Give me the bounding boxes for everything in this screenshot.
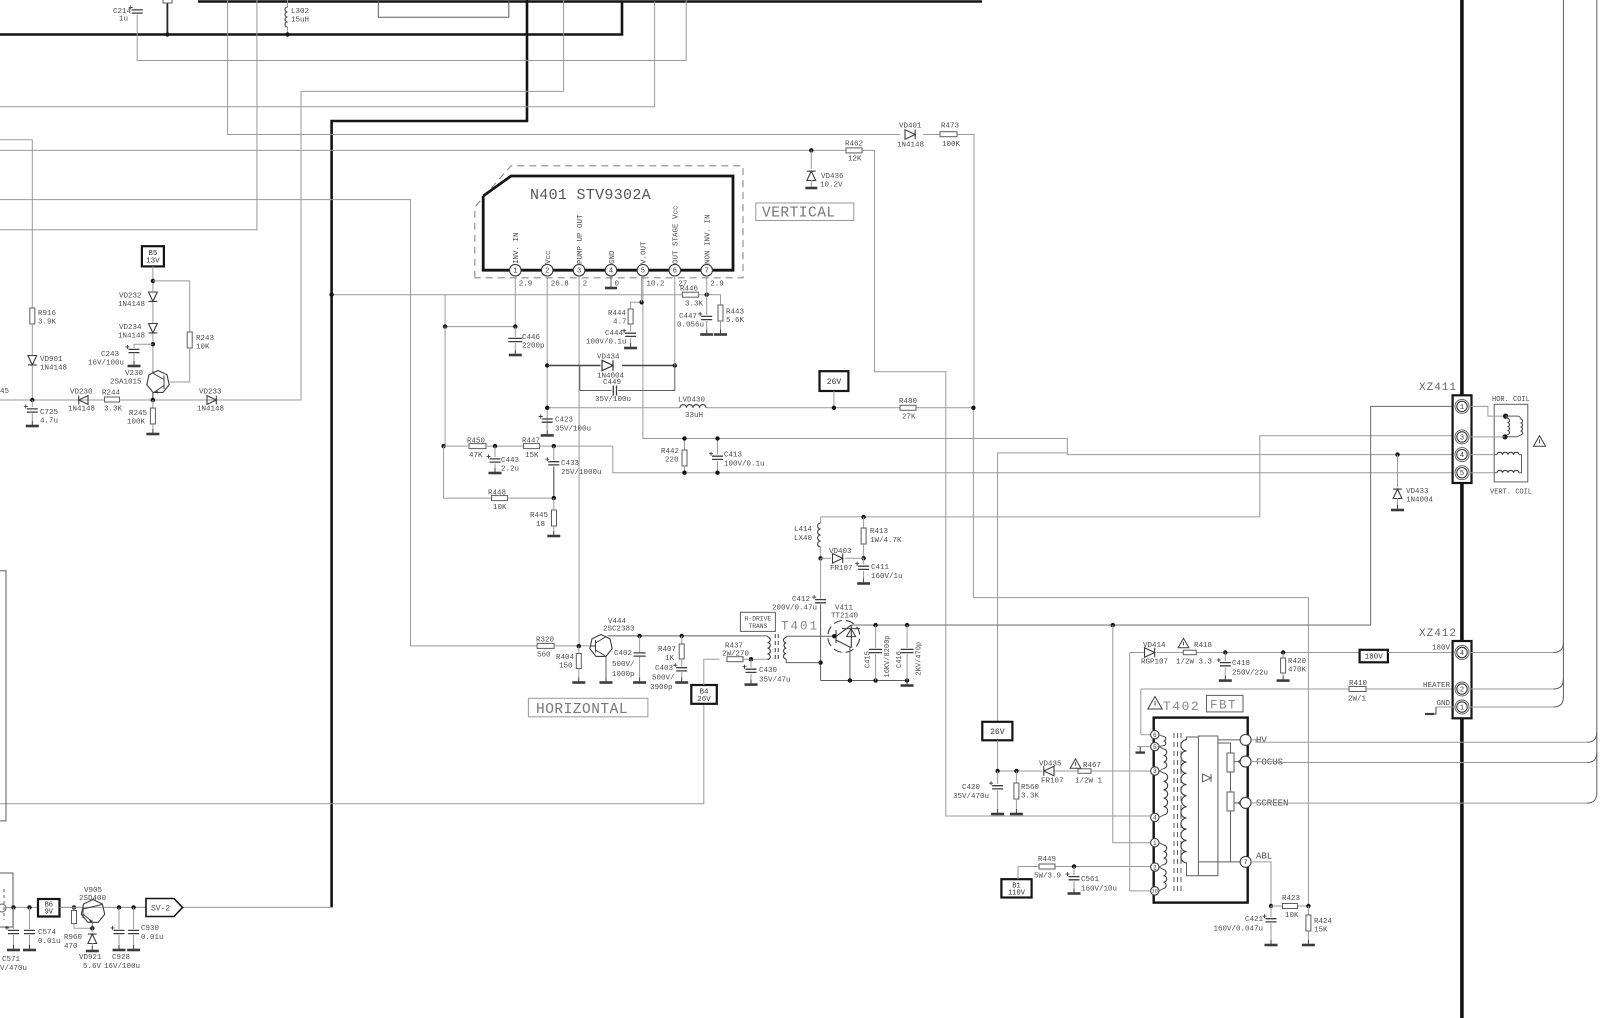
svg-text:R418: R418 (1194, 642, 1212, 650)
svg-text:C412: C412 (792, 596, 810, 604)
transformer T401 primary (768, 637, 771, 660)
wire VD435 row y=771 to FBT pin3 (998, 770, 1042, 772)
svg-text:180V: 180V (1432, 645, 1451, 653)
node junction C421 (1269, 904, 1273, 908)
node junction L414 bottom (818, 556, 822, 560)
wire branch to R243 (153, 281, 190, 332)
svg-text:10.2V: 10.2V (820, 182, 843, 190)
svg-text:26V: 26V (990, 728, 1005, 737)
resistor R462 12K (846, 148, 862, 153)
resistor R447 15K (524, 444, 540, 449)
wire x=445.1 down to R450 row (444, 327, 446, 447)
resistor R467 1/2W 1 with warning (1070, 759, 1081, 768)
wire L414 top net y=516.9 to XZ411 pin3 via x=1259.8 y=435.8 (821, 436, 1453, 517)
svg-text:ABL: ABL (1256, 852, 1272, 862)
FBT SCREEN pin (1240, 797, 1251, 808)
resistor R450 47K (469, 444, 486, 449)
diode VD435 FR107 (1044, 766, 1054, 776)
svg-text:R449: R449 (1038, 856, 1056, 864)
wire right bus x=1563.4 cable (1562, 0, 1564, 698)
FBT pin 6 (1141, 734, 1151, 736)
pin 1 INV. IN (510, 264, 522, 276)
node junction VD434 right pin6 (673, 363, 677, 367)
svg-text:150: 150 (559, 663, 573, 671)
wire V411 bottom rail y=680.5 (821, 680, 908, 682)
resistor R437 2W/270 (727, 657, 743, 662)
capacitor C930 0.01u (133, 907, 135, 929)
svg-text:1000p: 1000p (612, 671, 635, 679)
svg-text:XZ411: XZ411 (1419, 382, 1457, 394)
node junction C416 bottom gnd (905, 678, 909, 682)
op-amp U1 N401 STV9302A thick body (483, 176, 733, 270)
svg-text:2SA1015: 2SA1015 (110, 379, 142, 387)
svg-text:4.7u: 4.7u (40, 418, 58, 426)
wire pin1 down (514, 276, 516, 327)
node junction C416 top (905, 623, 909, 627)
svg-text:RGP107: RGP107 (1141, 659, 1168, 667)
node junction C418 (1223, 650, 1227, 654)
transistor V230 2SA1015 (147, 371, 169, 393)
svg-text:2: 2 (1153, 864, 1157, 871)
svg-text:C421: C421 (1245, 916, 1264, 924)
resistor R444 4.7 (631, 302, 642, 309)
svg-text:R445: R445 (530, 512, 549, 520)
svg-text:3.9K: 3.9K (38, 319, 57, 327)
pin 7 NON INV. IN (701, 264, 713, 276)
pin 4 GND (605, 264, 617, 276)
svg-text:470: 470 (64, 943, 78, 951)
node junction on thick bus (329, 293, 333, 297)
resistor R473 100K (940, 132, 957, 137)
capacitor C571 (13, 907, 15, 929)
svg-text:12K: 12K (848, 156, 862, 164)
FBT secondary winding (1181, 740, 1187, 863)
svg-text:HOR. COIL: HOR. COIL (1492, 396, 1530, 404)
capacitor C403 500V/3900p (681, 659, 683, 667)
svg-text:2SC2383: 2SC2383 (603, 626, 635, 634)
svg-text:C418: C418 (1232, 660, 1250, 668)
svg-text:HV: HV (1256, 736, 1267, 746)
resistor R480 27K (900, 405, 916, 410)
capacitor C416 2KV/470p (906, 625, 908, 648)
svg-text:C443: C443 (501, 457, 520, 465)
wire FBT pin6 riser (1140, 689, 1142, 735)
capacitor C423 35V/100u (542, 419, 553, 422)
svg-text:18: 18 (536, 521, 545, 529)
pin 3 PUMP UP OUT (573, 264, 585, 276)
wire L414 top row y=516.9 start (820, 517, 822, 523)
svg-text:VD234: VD234 (119, 324, 142, 332)
wire B+ x=973.4 from R473 down through R480 node to y=597.6 to x=1308.4 down to R423 node (973, 408, 1308, 906)
svg-text:2KV/470p: 2KV/470p (916, 642, 924, 676)
svg-text:33uH: 33uH (685, 412, 703, 420)
node junction C430 (749, 657, 753, 661)
svg-text:LX40: LX40 (794, 535, 813, 543)
svg-text:R410: R410 (1349, 680, 1368, 688)
svg-text:OUT STAGE Vcc: OUT STAGE Vcc (673, 205, 681, 264)
node junction emitter to R245 (151, 398, 155, 402)
component stub C220 top edge (163, 0, 172, 3)
svg-text:4: 4 (609, 268, 613, 276)
node junction R424 top (1306, 904, 1310, 908)
FBT focus arrow (1234, 760, 1241, 764)
svg-text:250V/22u: 250V/22u (1232, 670, 1268, 678)
capacitor C725 4.7u (31, 400, 33, 407)
svg-text:1N4148: 1N4148 (197, 406, 224, 414)
svg-text:100V/0.1u: 100V/0.1u (724, 461, 765, 469)
resistor R448 10K (492, 496, 508, 501)
wire R448 row y=498.1 (444, 446, 491, 498)
svg-text:V230: V230 (125, 370, 144, 378)
resistor R245 100K (152, 400, 154, 408)
svg-text:1N4148: 1N4148 (40, 365, 67, 373)
diode VD234 1N4148 (149, 324, 158, 333)
svg-text:4: 4 (1460, 650, 1464, 658)
wire B4 net y=803.8 from x=0 to x=703.8 up to B4 box (0, 704, 704, 804)
capacitor C411 160V/1u (863, 558, 865, 564)
wire x=1112.8 down to FBT pin1 (1113, 625, 1151, 843)
svg-text:1: 1 (1460, 404, 1464, 412)
svg-text:R404: R404 (556, 654, 575, 662)
node junction B5 (151, 279, 155, 283)
diode VD433 1N4004 (1397, 455, 1399, 487)
resistor R418 1/2W 3.3 with warning (1178, 638, 1189, 647)
connector XZ411 pin 3 (1455, 430, 1469, 444)
svg-text:NON INV. IN: NON INV. IN (705, 214, 713, 264)
wire VD401 net y=134.5 from x=227.6 (228, 0, 900, 135)
wire pin7 down to C447 (706, 276, 708, 315)
svg-text:Vcc: Vcc (545, 250, 553, 264)
svg-text:C243: C243 (101, 351, 120, 359)
wire right bus x=1596.8 cable (1596, 0, 1598, 794)
capacitor C928 16V/100u (118, 907, 120, 929)
net flag SV-2 (146, 899, 183, 917)
svg-text:6: 6 (673, 268, 677, 276)
svg-text:10K: 10K (1285, 912, 1299, 920)
node junction pin7 (705, 293, 709, 297)
FBT primary winding lower (1159, 843, 1164, 845)
FBT pin 10 (1151, 887, 1159, 895)
svg-text:R448: R448 (488, 490, 506, 498)
svg-text:1u: 1u (119, 16, 128, 24)
node junction C420 (995, 769, 999, 773)
svg-text:4.7: 4.7 (613, 319, 627, 327)
svg-text:15uH: 15uH (291, 17, 309, 25)
svg-text:1/2W 1: 1/2W 1 (1075, 778, 1103, 786)
inductor vert coil (1497, 452, 1519, 454)
svg-text:R244: R244 (102, 390, 121, 398)
FBT pin 1 (1151, 839, 1159, 847)
resistor R320 560 (537, 643, 554, 648)
svg-text:2W/270: 2W/270 (722, 651, 750, 659)
capacitor C418 250V/22u (1224, 653, 1226, 662)
FBT pin 2 (1151, 863, 1159, 871)
svg-text:HORIZONTAL: HORIZONTAL (536, 702, 628, 718)
svg-text:GND: GND (609, 250, 617, 264)
resistor R960 470 (73, 907, 75, 910)
svg-text:1N4148: 1N4148 (897, 142, 924, 150)
resistor R407 1K (681, 636, 683, 644)
capacitor C402 500V/1000p (639, 636, 641, 652)
wire R449 row y=866.5 to FBT pin2 (1018, 867, 1039, 880)
svg-text:2200p: 2200p (522, 343, 545, 351)
node junction V230 emitter (151, 398, 155, 402)
svg-text:16V/100u: 16V/100u (104, 963, 140, 971)
svg-text:N401 STV9302A: N401 STV9302A (530, 187, 651, 204)
svg-text:C411: C411 (871, 564, 890, 572)
svg-text:C433: C433 (561, 460, 580, 468)
FBT HV block (1198, 736, 1218, 876)
svg-text:2: 2 (545, 268, 549, 276)
svg-text:R420: R420 (1288, 658, 1307, 666)
svg-text:VERT. COIL: VERT. COIL (1490, 489, 1532, 497)
node junction x=445.1 y=326.6 (443, 324, 447, 328)
svg-text:R442: R442 (661, 448, 679, 456)
svg-text:C571: C571 (2, 956, 21, 964)
resistor R916 3.9K (0, 140, 32, 308)
capacitor C413 100V/0.1u (717, 439, 719, 455)
svg-text:2SD400: 2SD400 (79, 895, 107, 903)
svg-text:V905: V905 (84, 887, 103, 895)
diode VD233 1N4148 (207, 396, 216, 405)
capacitor C447 0.056u (701, 316, 712, 319)
svg-text:2: 2 (583, 281, 588, 289)
wire IC pin3 long vertical to V444 base (578, 276, 580, 646)
svg-text:INV. IN: INV. IN (513, 232, 521, 264)
node junction VD434 left (545, 363, 549, 367)
node junction VD901 / C725 (30, 398, 34, 402)
svg-text:2: 2 (1460, 687, 1464, 695)
svg-text:R960: R960 (64, 934, 83, 942)
svg-text:V/470u: V/470u (0, 965, 27, 973)
wire V230 line y=400 from x=0 to x=301 up to y=91.4 (0, 91, 301, 400)
node junction emitter rail (848, 678, 852, 682)
svg-text:R423: R423 (1282, 895, 1301, 903)
svg-text:100V/0.1u: 100V/0.1u (586, 339, 627, 347)
node junction R480 right (971, 406, 975, 410)
node junction V444 base (577, 644, 581, 648)
svg-text:3: 3 (577, 268, 581, 276)
node junction R450 left (441, 444, 445, 448)
node junction x=515.3 y=326.6 (513, 324, 517, 328)
wire vertical x=167.4 dark from top to bus (166, 3, 168, 35)
pin 2 Vcc (541, 264, 553, 276)
wire y=199.6 from x=0 corner x=410.5 down to R320 line y=645.9 (0, 200, 537, 646)
svg-text:R413: R413 (870, 528, 889, 536)
wire INV feedback y=294.7 from thick bus (332, 294, 682, 296)
diode VD414 RGP107 (1145, 648, 1155, 658)
wire V905 collector to SV-2 (60, 906, 82, 908)
svg-text:T401: T401 (781, 620, 819, 634)
svg-text:C930: C930 (141, 925, 160, 933)
svg-text:160V/0.047u: 160V/0.047u (1213, 926, 1263, 934)
wire 180V rail y=652.5 from FBT pin10 riser (1130, 652, 1144, 654)
wire 26V down to VD435 row (997, 740, 999, 771)
wire C412 vertical x=820.6 (820, 558, 822, 599)
resistor R420 470K (1282, 653, 1284, 659)
vert coil wiring (1468, 454, 1494, 456)
svg-text:47K: 47K (469, 452, 483, 460)
capacitor C574 0.01u (29, 907, 31, 929)
FBT pot chain (1218, 743, 1231, 753)
FBT pin 4 (1151, 813, 1159, 821)
svg-text:2.9: 2.9 (519, 281, 533, 289)
diode VD434 1N4004 (602, 360, 613, 370)
svg-text:R424: R424 (1314, 918, 1333, 926)
svg-text:100K: 100K (942, 141, 961, 149)
zener diode VD436 10.2V (810, 150, 812, 169)
capacitor C433 25V/1000u (553, 446, 555, 460)
node junction C561 (1072, 864, 1076, 868)
svg-text:9V: 9V (45, 909, 54, 917)
svg-text:XZ412: XZ412 (1419, 628, 1457, 640)
ground pin4 GND (610, 276, 612, 288)
svg-text:5.6K: 5.6K (726, 317, 745, 325)
svg-text:1W/4.7K: 1W/4.7K (870, 537, 902, 545)
resistor R443 5.6K (718, 305, 723, 321)
wire 180V to XZ412 pin4 (1388, 652, 1453, 654)
wire y=106.8 from x=0 to x=654.6 up to top bus (0, 2, 655, 107)
capacitor C449 35V/100u loop (580, 366, 612, 391)
svg-text:VD401: VD401 (899, 123, 922, 131)
FBT pin 3 (1151, 767, 1159, 775)
node junction C243 tap (151, 342, 155, 346)
resistor R446 3.3K (682, 292, 698, 297)
wire thick L path x=527 y=121 x=331.6 down to y=907.4 (332, 0, 527, 907)
capacitor C430 35V/47u (750, 659, 752, 667)
svg-text:6: 6 (1153, 732, 1157, 739)
wire 26V box top link x=997.6 to pin4 net (998, 453, 1068, 722)
svg-text:R437: R437 (725, 643, 743, 651)
svg-text:R444: R444 (608, 310, 627, 318)
node junction hor coil bottom (1502, 434, 1507, 439)
svg-text:7: 7 (1244, 859, 1248, 866)
wire V.OUT pin5 net to XZ411 pin4: y=438.5 jog x=1067.3 y=454.6 (643, 276, 1453, 455)
svg-text:26V: 26V (827, 378, 842, 387)
power flag B6 9V (38, 899, 60, 917)
svg-text:L302: L302 (291, 8, 309, 16)
label H-DRIVE TRANS box (740, 612, 775, 631)
wire y=229.7 from x=0 corner up x=256.9 (0, 0, 257, 230)
svg-text:3: 3 (1460, 434, 1464, 442)
inductor hor coil (1506, 415, 1518, 417)
node junction C433 top (552, 444, 556, 448)
svg-text:VD434: VD434 (597, 354, 620, 362)
wire top bus thick y=1.5 (198, 0, 982, 3)
node junction VD436 tap (809, 148, 813, 152)
svg-text:C725: C725 (40, 409, 59, 417)
svg-text:1/2W 3.3: 1/2W 3.3 (1176, 659, 1213, 667)
svg-text:R446: R446 (680, 286, 699, 294)
node junction R413 bottom (861, 556, 865, 560)
wire B5 down (152, 266, 154, 291)
svg-text:VD232: VD232 (119, 293, 142, 301)
svg-text:R443: R443 (726, 309, 745, 317)
yoke box (1494, 404, 1528, 482)
svg-text:3.3K: 3.3K (685, 301, 704, 309)
node junction R407 (680, 634, 684, 638)
wire 26V supply line y=407.8 LVD430 R480 (548, 407, 680, 409)
svg-text:160V/1u: 160V/1u (871, 573, 903, 581)
wire C214 net y=60.5 (137, 0, 686, 61)
svg-text:13V: 13V (146, 258, 160, 266)
svg-text:C430: C430 (759, 667, 778, 675)
svg-text:VERTICAL: VERTICAL (762, 206, 836, 222)
wire R423 row (1271, 905, 1282, 907)
wire FBT pin10 riser x=1129.7 (1130, 653, 1151, 891)
svg-text:C444: C444 (605, 330, 624, 338)
pin 6 OUT STAGE Vcc (669, 264, 681, 276)
wire FOCUS y=762.5 (1251, 761, 1587, 764)
node junction pin2 LVD line (545, 406, 549, 410)
node junction V411 base (832, 634, 836, 638)
svg-text:R462: R462 (845, 141, 863, 149)
connector XZ411 body (1453, 395, 1472, 483)
wire heater rail y=689 from FBT pin6 riser (1141, 688, 1349, 690)
svg-text:500V/: 500V/ (612, 661, 635, 669)
connector XZ411 pin 4 (1455, 448, 1469, 462)
FBT ABL pin 7 (1198, 861, 1240, 863)
svg-text:5.6V: 5.6V (83, 963, 102, 971)
svg-text:VD230: VD230 (70, 389, 93, 397)
power flag B5 13V (142, 246, 164, 266)
svg-text:15K: 15K (1314, 927, 1328, 935)
zener diode VD921 5.6V (91, 928, 93, 932)
wire main thick bus y=34.5 with corner up at x=622 (0, 2, 622, 35)
hor coil wiring from pin1 (1468, 406, 1505, 416)
svg-text:1: 1 (513, 268, 517, 276)
svg-text:26V: 26V (697, 696, 711, 704)
label box VERTICAL (756, 203, 854, 221)
svg-text:C446: C446 (522, 334, 541, 342)
power flag B4 26V (691, 685, 717, 704)
wire VD434 row dark (547, 365, 600, 367)
svg-text:VD435: VD435 (1039, 761, 1062, 769)
inductor L414 LX40 (818, 523, 821, 547)
svg-text:16KV/8200p: 16KV/8200p (884, 635, 892, 677)
svg-text:1N4148: 1N4148 (68, 406, 95, 414)
svg-text:10.2: 10.2 (646, 281, 664, 289)
svg-text:220: 220 (665, 457, 679, 465)
svg-text:35V/47u: 35V/47u (759, 677, 791, 685)
wire XZ412 pin2 to bus curve (1468, 688, 1553, 690)
svg-text:R245: R245 (129, 410, 148, 418)
svg-text:2.9: 2.9 (710, 281, 724, 289)
svg-text:15K: 15K (525, 452, 539, 460)
svg-text:TRANS: TRANS (748, 623, 767, 630)
svg-text:T402: T402 (1163, 699, 1200, 714)
wire R437 from B4 (704, 659, 720, 685)
svg-text:16V/100u: 16V/100u (88, 360, 124, 368)
svg-text:VD921: VD921 (79, 954, 102, 962)
wire thick right main vertical x=1461.9 (1460, 0, 1464, 1018)
svg-text:560: 560 (537, 652, 551, 660)
svg-text:5W/3.9: 5W/3.9 (1034, 873, 1061, 881)
node junction x=167.4 on bus (165, 32, 169, 36)
node junction C930 (131, 905, 135, 909)
svg-text:VD901: VD901 (40, 356, 63, 364)
svg-text:R243: R243 (196, 335, 215, 343)
FBT HV pin (1218, 739, 1240, 741)
svg-text:VD436: VD436 (821, 173, 844, 181)
inductor L302 15uH (285, 7, 288, 27)
svg-text:160V/10u: 160V/10u (1081, 886, 1117, 894)
svg-text:C415: C415 (865, 651, 873, 668)
svg-text:1: 1 (1460, 705, 1464, 713)
svg-text:1N4148: 1N4148 (118, 301, 145, 309)
resistor R423 10K (1283, 904, 1298, 909)
svg-text:VD233: VD233 (199, 389, 222, 397)
